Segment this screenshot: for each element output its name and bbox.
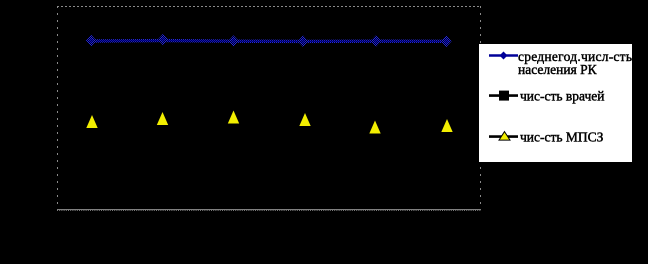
diamond marker 3	[228, 35, 239, 47]
plot border right	[480, 6, 482, 210]
plot border left	[57, 6, 59, 210]
x-axis line	[57, 209, 481, 211]
diamond marker 6	[441, 36, 452, 48]
series 3 yellow triangle marker 5	[369, 121, 380, 134]
series 3 yellow triangle marker 2	[157, 112, 168, 125]
legend sample 1: blue line with diamond	[489, 52, 518, 60]
legend box	[478, 43, 633, 163]
series 1: blue line (среднегод.числ-сть населения РК)	[91, 39, 446, 43]
diamond marker 4	[298, 35, 309, 47]
svg-text:населения РК: населения РК	[518, 62, 598, 77]
svg-text:чис-сть врачей: чис-сть врачей	[520, 88, 605, 103]
diamond marker 5	[371, 35, 382, 47]
series 3 yellow triangle marker 1	[86, 115, 97, 128]
legend sample 2: black line with square	[489, 91, 518, 101]
diamond marker 1	[86, 35, 97, 47]
diamond marker 2	[158, 34, 169, 46]
legend sample 3: black line with yellow triangle	[489, 132, 518, 141]
series 3 yellow triangle marker 4	[299, 113, 310, 126]
svg-text:чис-сть МПСЗ: чис-сть МПСЗ	[520, 129, 604, 144]
series 3 yellow triangle marker 6	[441, 119, 452, 132]
plot border bottom dotted	[57, 210, 481, 212]
series 3 yellow triangle marker 3	[228, 111, 239, 124]
plot border top	[57, 6, 481, 8]
